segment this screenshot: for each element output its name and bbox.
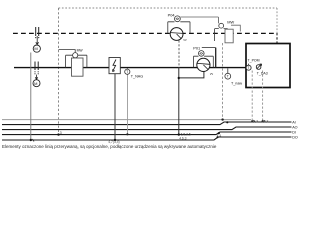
- damper MW bracket: [215, 29, 228, 41]
- junction dot DI jog: [218, 132, 220, 134]
- pump P04 control circle: [175, 16, 181, 22]
- pump P04 bracket: [168, 22, 190, 34]
- dashed drop wire into controller box top: [276, 33, 278, 44]
- svg-text:T: T: [227, 75, 229, 79]
- controller box: [246, 44, 290, 88]
- wire P01 control drop: [215, 48, 217, 68]
- bus line DO: [2, 137, 292, 140]
- fan M2: [33, 80, 40, 87]
- damper D1 body: [72, 58, 84, 76]
- svg-text:4,4: 4,4: [217, 134, 222, 138]
- svg-text:T: T: [247, 66, 249, 70]
- bus line AO: [2, 127, 292, 130]
- solid exhaust duct line: [14, 67, 246, 69]
- damper MW control circle: [219, 23, 224, 28]
- svg-text:vv: vv: [210, 72, 214, 76]
- filter F1 on supply line: [35, 27, 39, 38]
- sensor T_naw: [225, 68, 243, 85]
- filter F2 on exhaust line: [34, 62, 38, 75]
- svg-text:Elementy oznaczone linią przer: Elementy oznaczone linią przerywaną, są …: [2, 144, 217, 149]
- pump P04 body: [170, 28, 183, 41]
- wire damper MW link elbow: [227, 34, 234, 40]
- fan M1: [33, 45, 40, 52]
- wire P04 control to MW: [180, 16, 218, 18]
- svg-text:T: T: [126, 70, 128, 74]
- wire MW label link: [231, 25, 240, 31]
- svg-text:3: 3: [60, 131, 62, 135]
- wire pump P04 stem dashed: [178, 40, 180, 67]
- junction dot DO jog: [217, 136, 219, 138]
- svg-text:T_DA3: T_DA3: [257, 71, 268, 75]
- svg-text:vv: vv: [183, 38, 187, 42]
- svg-text:4,9,3: 4,9,3: [251, 119, 258, 123]
- sensor T inside controller: [246, 64, 251, 71]
- damper MW body: [225, 29, 233, 43]
- svg-text:DI: DI: [292, 130, 296, 134]
- wire P01 control: [202, 47, 216, 49]
- svg-text:T_POM: T_POM: [248, 59, 260, 63]
- pump P01 control circle: [199, 51, 205, 57]
- optional-enclosure right dotted vertical: [276, 8, 278, 33]
- junction dot optional enclosure wire on DI bus: [57, 131, 62, 136]
- wire pump P01 elbow: [179, 72, 204, 78]
- svg-text:MW: MW: [227, 19, 234, 24]
- wire MW control drop: [217, 17, 219, 23]
- wire pump shared drop to bus: [178, 68, 180, 136]
- svg-text:M: M: [34, 46, 37, 51]
- wire sensor T_NAG to bus: [126, 74, 128, 135]
- damper D1 control circle: [73, 53, 78, 58]
- svg-text:DO: DO: [292, 135, 298, 139]
- junction dot AI jog: [226, 121, 228, 123]
- svg-text:P04: P04: [168, 12, 176, 17]
- svg-text:T_naw: T_naw: [231, 82, 242, 86]
- pump P01 body: [197, 58, 210, 71]
- wire controller sensor drop 1: [251, 71, 255, 123]
- svg-text:MW: MW: [77, 49, 84, 53]
- svg-text:M: M: [34, 81, 37, 86]
- wire fan M1 to bus: [30, 53, 34, 142]
- wire damper MW drop to gray bus: [221, 43, 223, 121]
- svg-text:AO: AO: [292, 125, 297, 129]
- damper D1 bracket: [66, 55, 87, 67]
- heater E1: [109, 58, 120, 74]
- wire damper D1 control branch: [59, 50, 76, 53]
- optional-enclosure dotted top line: [59, 7, 278, 9]
- bus line DI: [2, 132, 292, 135]
- wire controller sensor drop 2: [262, 71, 266, 123]
- svg-text:4,7,3: 4,7,3: [261, 119, 268, 123]
- bus line gray (top): [2, 119, 251, 121]
- sensor T_NAG: [125, 68, 144, 78]
- svg-text:4,6,3: 4,6,3: [179, 137, 186, 141]
- actuator icon inside controller: [256, 64, 261, 69]
- svg-text:T_NAG: T_NAG: [131, 75, 143, 79]
- svg-text:P01: P01: [193, 46, 200, 51]
- optional-enclosure left dashed vertical wire to bus: [58, 8, 60, 135]
- arrow filter F1 to fan: [36, 36, 39, 45]
- pump P01 bracket: [194, 56, 214, 67]
- svg-text:AI: AI: [292, 120, 295, 124]
- dashed supply duct line: [13, 32, 277, 34]
- arrow filter F2 to fan: [35, 75, 38, 80]
- wire heater to bus: [114, 74, 116, 141]
- bus line AI: [2, 122, 292, 125]
